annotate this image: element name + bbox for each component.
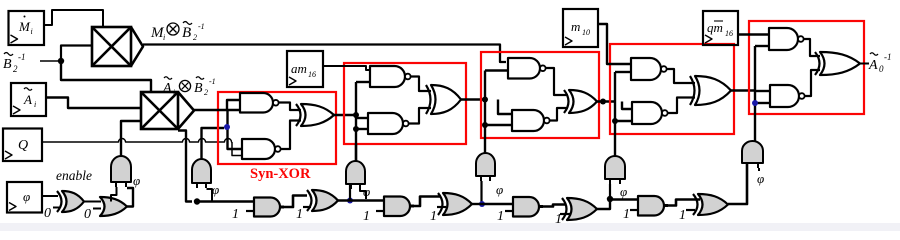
register A_i: [11, 83, 46, 116]
svg-text:A: A: [868, 58, 878, 73]
red frame cell 2: [344, 63, 466, 144]
wire NAND4a to XOR4: [667, 69, 696, 83]
svg-text:1: 1: [497, 209, 504, 224]
svg-text:Syn-XOR: Syn-XOR: [250, 166, 311, 182]
nand-gate 1b: [242, 139, 275, 159]
svg-text:φ: φ: [212, 182, 219, 197]
svg-text:i: i: [31, 27, 33, 36]
svg-text:B: B: [3, 57, 12, 72]
wire AND C1 to XOR C1: [284, 196, 307, 208]
and-gate P2 clock phi: [192, 159, 211, 183]
wire Q line with hops: [42, 139, 232, 143]
nand-gate 5a: [769, 28, 798, 50]
svg-text:-1: -1: [198, 22, 205, 31]
svg-text:Q: Q: [18, 138, 28, 153]
and-gate P1 clock phi: [111, 156, 131, 182]
svg-text:i: i: [163, 33, 165, 42]
wire stub 1 to AND C3: [505, 210, 514, 212]
register am16: [287, 51, 323, 87]
node cell2 lower: [353, 126, 359, 132]
wire branch up to NAND1a: [227, 100, 242, 110]
and-gate C4: [638, 196, 664, 216]
wire branch down to NAND1b: [228, 110, 243, 149]
node cell2 upper: [353, 112, 359, 118]
node blue cell 5: [752, 100, 758, 106]
node chain 3: [607, 196, 613, 202]
node B2 junction: [58, 58, 64, 64]
wire NAND3a to XOR3: [546, 68, 569, 95]
xor-gate C1: [312, 190, 338, 211]
and-gate C2: [384, 197, 410, 217]
wire stub 1 to AND C2: [376, 210, 385, 212]
svg-text:0: 0: [84, 207, 91, 222]
wire bus to NAND5b lower input: [755, 102, 770, 104]
nand-gate 1a: [240, 93, 273, 113]
wire NAND5b to XOR5: [805, 70, 821, 96]
red frame cell 5: [749, 21, 864, 114]
and-gate P3 clock phi: [346, 161, 365, 184]
wire XOR5 output: [860, 63, 869, 65]
svg-text:1: 1: [679, 208, 686, 223]
wire XOR C4 up to P6: [728, 163, 747, 204]
svg-text:i: i: [173, 88, 175, 97]
wire stub 0 to OR E2: [93, 208, 101, 210]
wire qm16 to NAND5a: [738, 33, 769, 35]
node cell3 upper: [482, 97, 488, 103]
wire NAND2a to XOR2: [411, 77, 432, 92]
svg-text:10: 10: [582, 28, 590, 37]
wire NAND5a to XOR5: [804, 39, 821, 56]
svg-text:φ: φ: [133, 173, 140, 188]
wire XOR C2 to node: [472, 203, 482, 205]
xor-gate 2: [431, 85, 461, 114]
and-gate C3: [513, 197, 539, 217]
node cell3 lower: [482, 122, 488, 128]
wire XOR C3 to node: [597, 199, 610, 209]
svg-text:-1: -1: [884, 52, 892, 62]
wire XOR C1 to AND C2: [338, 199, 385, 201]
wire X1 output bus: [143, 45, 506, 63]
wire X2 corner tap down to bus: [178, 131, 192, 202]
wire P1 output up to X2: [121, 121, 141, 156]
wire bus to NAND2b lower input: [356, 128, 368, 130]
node blue chain 2: [479, 201, 485, 207]
wire fork to NAND3b upper input: [498, 100, 512, 115]
svg-text:1: 1: [623, 207, 630, 222]
wire Q line into NAND1b lower input: [232, 142, 242, 156]
svg-text:φ: φ: [496, 182, 503, 197]
wire cell5 vertical bus: [754, 46, 756, 141]
xor-gate C3: [567, 198, 597, 220]
nand-gate 4b: [632, 102, 662, 124]
svg-text:1: 1: [232, 207, 239, 222]
xor-gate C2: [443, 193, 472, 215]
wire X2 output to cell 1: [194, 109, 242, 111]
nand-gate 3a: [508, 58, 540, 79]
and-gate P4 clock phi: [476, 153, 495, 176]
svg-text:1: 1: [430, 209, 437, 224]
svg-text:M: M: [18, 19, 31, 34]
wire am16 to NAND2a: [322, 66, 370, 70]
wire bus to NAND3b lower input: [485, 124, 512, 126]
wire bus to NAND2b upper input: [356, 117, 368, 119]
wire cell3 vertical bus: [484, 71, 486, 154]
wire AND C2 nub: [410, 205, 414, 208]
node blue chain 1: [347, 198, 353, 204]
nand-gate 5b: [770, 85, 799, 107]
svg-text:-1: -1: [209, 77, 216, 86]
svg-text:φ: φ: [620, 184, 627, 199]
node cell4 entry: [600, 99, 606, 105]
wire B2 junction down to X2 top input: [61, 60, 151, 92]
multiplier X1: [92, 27, 131, 66]
wire stub 1 to AND C4: [630, 209, 639, 211]
wire NAND2b to XOR2: [409, 108, 432, 124]
wire NAND4b to XOR4: [668, 98, 696, 114]
wire B2 junction up to X1 left input: [61, 46, 92, 63]
svg-text:16: 16: [308, 70, 316, 79]
wire E1 to E2: [84, 201, 101, 203]
svg-text:-1: -1: [18, 52, 26, 62]
node cell4 lower: [612, 118, 618, 124]
svg-text:m: m: [571, 19, 580, 34]
svg-text:0: 0: [879, 64, 884, 74]
wire XOR1 output: [334, 114, 356, 116]
svg-text:2: 2: [13, 64, 18, 74]
register m10: [563, 9, 598, 47]
node blue cell 1: [224, 124, 230, 130]
nand-gate 2b: [368, 113, 403, 134]
wire M_i to multiplier X1 top: [44, 10, 103, 26]
wire NAND3b to XOR3: [550, 108, 569, 121]
nand-gate 2a: [370, 66, 405, 87]
svg-text:qm: qm: [707, 20, 723, 35]
wire P5 left stub down: [609, 184, 611, 199]
wire XOR2 output: [461, 98, 485, 100]
svg-text:φ: φ: [757, 171, 764, 186]
wire bus to NAND2a lower input: [356, 81, 370, 83]
wire AND C3 to XOR C3: [543, 205, 566, 207]
svg-text:1: 1: [363, 209, 370, 224]
wire XOR3 output: [597, 100, 615, 102]
svg-text:2: 2: [204, 88, 208, 97]
or-gate E2 enable: [100, 197, 127, 216]
wire m10 to NAND4a: [598, 24, 631, 64]
wire bus to NAND5a lower input: [755, 45, 769, 47]
wire NAND1b to XOR1: [281, 121, 302, 150]
wire P2 output up to node: [202, 128, 225, 159]
and-gate P6 clock phi: [742, 141, 763, 163]
wire node to AND C3: [482, 203, 514, 205]
wire phi box to XOR E1: [42, 195, 58, 197]
wire P2 right stub to bus: [207, 189, 213, 201]
svg-text:B: B: [194, 81, 203, 96]
wire P6 right stub: [758, 168, 760, 171]
svg-text:1: 1: [296, 207, 303, 222]
svg-text:i: i: [34, 100, 36, 109]
wire AND C4 to XOR C4: [668, 200, 700, 206]
wire P4 left stub down: [480, 181, 482, 204]
wire B2 to junction: [40, 60, 59, 62]
red frame cell 3: [481, 52, 599, 138]
wire P3 output up: [355, 144, 357, 161]
wire cell2 vertical bus: [355, 82, 357, 161]
wire stub 0 to XOR E1: [53, 207, 60, 209]
svg-text:0: 0: [44, 206, 51, 221]
footer band: [0, 223, 900, 231]
svg-text:2: 2: [193, 33, 197, 42]
wire stub 1 to AND C1: [246, 210, 255, 212]
wire bus to NAND3a lower input: [485, 69, 508, 71]
red frame cell 1: [218, 92, 336, 164]
register M_i: [9, 11, 45, 45]
nand-gate 3b: [512, 110, 544, 131]
register Q: [3, 129, 42, 162]
wire stub 1 to XOR C2: [437, 206, 446, 208]
svg-text:am: am: [291, 61, 307, 76]
wire E2 output up to AND P1 right stub: [126, 188, 133, 207]
and-gate P5 clock phi: [605, 156, 625, 179]
xor-gate C4: [698, 194, 728, 215]
wire AND C2 to XOR C2: [414, 197, 440, 207]
xor-gate 3: [569, 90, 597, 113]
svg-text:A: A: [162, 81, 172, 96]
wire P3 left stub down: [349, 184, 351, 200]
wire bus to NAND5b upper input: [755, 90, 770, 92]
wire AND P1 left stub down to enable line: [111, 187, 117, 202]
register qm16: [703, 11, 738, 45]
wire bus to AND C1: [197, 200, 255, 202]
wire stub 1 to XOR C1: [303, 206, 311, 208]
wire stub 1 to XOR C3: [560, 213, 570, 215]
nand-gate 4a: [631, 58, 661, 80]
wire bus to NAND4a lower input: [615, 71, 631, 73]
wire node to AND C4: [610, 198, 639, 200]
node bus junction: [194, 198, 200, 204]
red frame cell 4: [610, 44, 734, 134]
and-gate C1: [254, 198, 280, 217]
wire AND C3 nub: [539, 205, 543, 208]
svg-text:16: 16: [725, 29, 733, 38]
multiplier X2: [141, 92, 178, 129]
xor-gate 5: [820, 52, 860, 75]
wire AND C4 nub: [664, 204, 668, 207]
wire fork to NAND4b upper input: [622, 102, 632, 110]
wire stub 1 to XOR C4: [686, 209, 695, 211]
xor-gate E1 enable: [62, 191, 84, 212]
wire NAND1a to XOR1: [279, 103, 302, 111]
svg-text:φ: φ: [23, 189, 30, 204]
register phi: [7, 182, 42, 213]
svg-text:A: A: [23, 92, 32, 107]
wire XOR4 output: [731, 89, 755, 91]
xor-gate 4: [695, 76, 731, 105]
svg-text:B: B: [182, 25, 191, 41]
svg-text:enable: enable: [56, 168, 92, 183]
wire P3 right stub down: [360, 189, 366, 199]
wire AND C1 nub: [280, 206, 284, 209]
wire A_i to X2 left input: [46, 98, 141, 109]
wire bus to NAND4b lower input: [615, 120, 632, 122]
wire cell4 vertical bus: [614, 72, 616, 156]
xor-gate 1: [301, 104, 334, 126]
